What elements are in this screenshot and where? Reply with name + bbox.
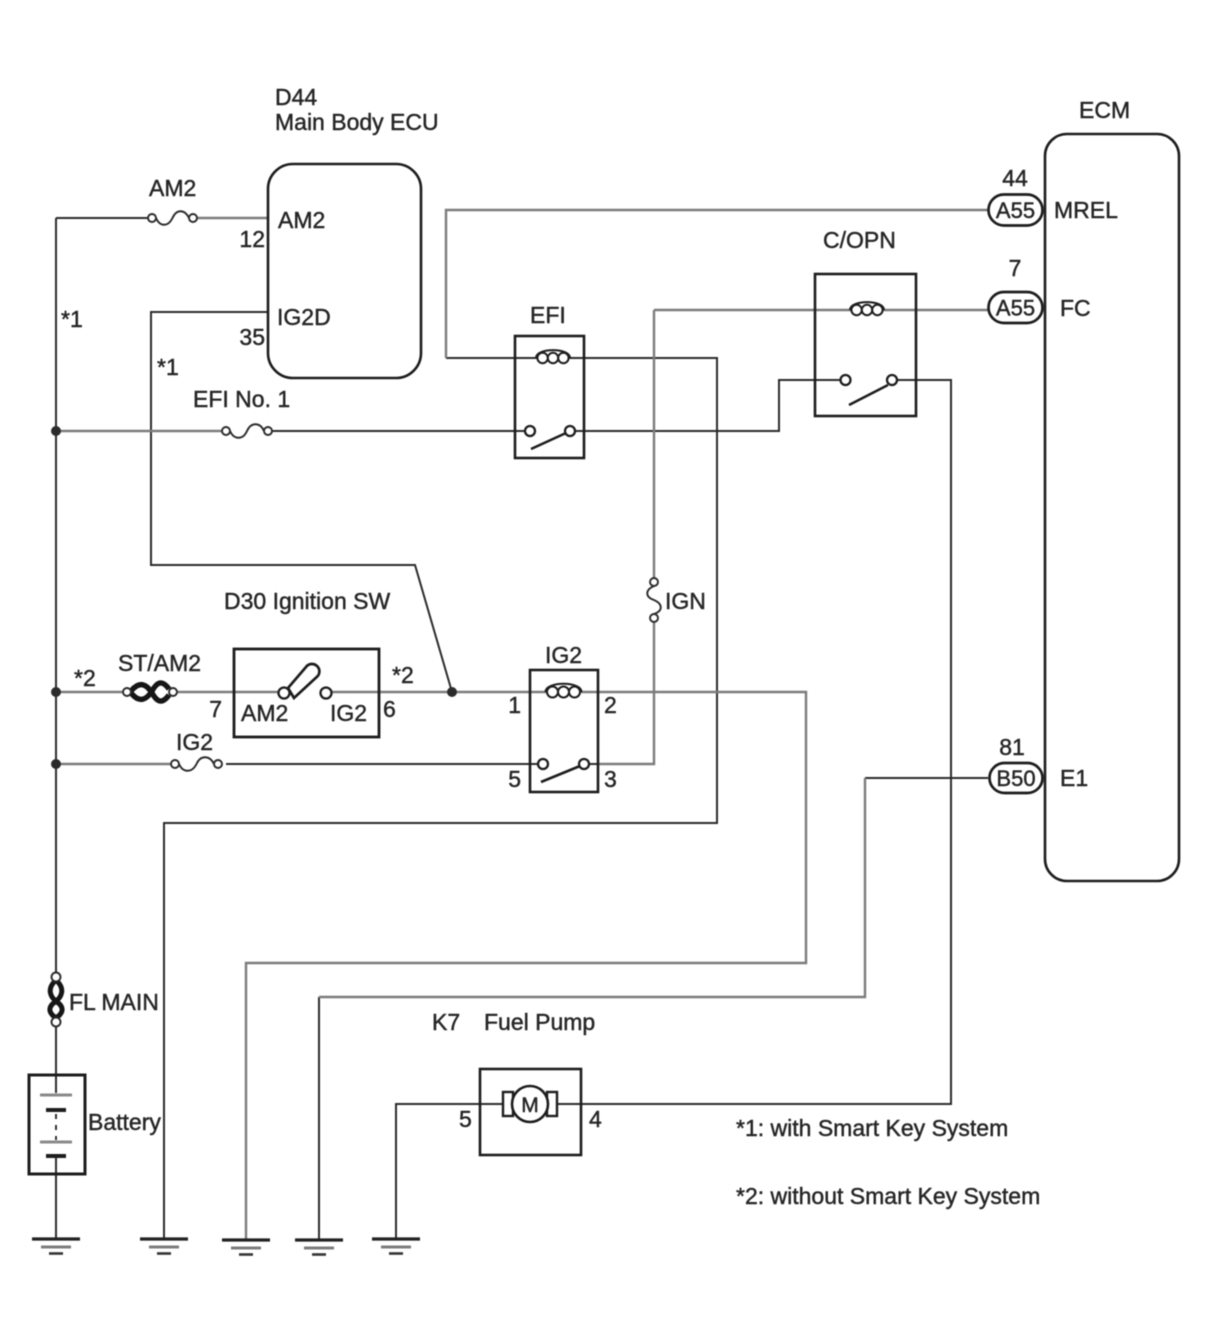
svg-text:M: M	[521, 1094, 539, 1117]
svg-text:3: 3	[604, 766, 617, 792]
wire ST/AM2 link to ignition switch	[177, 691, 279, 693]
wire ST/AM2 feed	[56, 691, 123, 693]
svg-text:1: 1	[508, 692, 521, 718]
wire IG2 fuse to IG2 relay switch	[226, 763, 538, 765]
wire E1 ground leg	[318, 997, 320, 1239]
svg-text:*1: with Smart Key System: *1: with Smart Key System	[736, 1115, 1008, 1141]
svg-text:K7: K7	[432, 1009, 460, 1035]
wire IG2D smart-key path	[151, 312, 452, 692]
svg-text:B50: B50	[996, 766, 1035, 791]
connector B50 E1	[990, 763, 1043, 793]
svg-text:6: 6	[383, 696, 396, 722]
svg-text:IG2: IG2	[545, 642, 582, 668]
wire MREL from ECM	[446, 210, 988, 358]
wire C/OPN switch out to fuel pump pin 4	[556, 380, 951, 1104]
svg-text:4: 4	[589, 1106, 602, 1132]
svg-text:IG2: IG2	[330, 700, 367, 726]
junction node battery/ST-AM2	[51, 687, 61, 697]
svg-text:35: 35	[239, 324, 265, 350]
ground G5	[372, 1239, 420, 1254]
relay C/OPN box	[815, 274, 916, 416]
svg-text:D44: D44	[275, 84, 317, 110]
fusible link ST/AM2	[131, 683, 169, 701]
ECM box	[1045, 134, 1179, 881]
connector A55 FC	[989, 292, 1043, 323]
svg-text:C/OPN: C/OPN	[823, 227, 896, 253]
fuse IGN	[647, 578, 661, 622]
svg-text:FL MAIN: FL MAIN	[69, 989, 159, 1015]
fuel pump K7 box	[480, 1069, 581, 1155]
svg-text:FC: FC	[1060, 295, 1091, 321]
svg-text:2: 2	[604, 692, 617, 718]
WIRES-GRAY	[56, 210, 988, 1239]
battery plates	[40, 1095, 72, 1156]
relay EFI switch	[525, 426, 575, 449]
wire IG2 relay switch pin3 inside	[589, 763, 598, 765]
svg-text:IGN: IGN	[665, 588, 706, 614]
svg-text:7: 7	[1009, 255, 1022, 281]
ground G2	[140, 1239, 188, 1254]
ground G4	[295, 1240, 343, 1255]
svg-text:A55: A55	[996, 198, 1035, 223]
wire AM2 fuse to ECU pin 12	[197, 217, 268, 219]
junction node battery/IG2 fuse	[51, 759, 61, 769]
svg-text:ECM: ECM	[1079, 97, 1130, 123]
wire battery bus vertical upper	[55, 218, 57, 973]
wire IGN fuse vertical	[653, 310, 655, 578]
junction node ignition out	[447, 687, 457, 697]
ground G3	[222, 1240, 270, 1255]
svg-text:*1: *1	[61, 306, 83, 332]
ECU D44 box	[268, 164, 421, 378]
svg-text:ST/AM2: ST/AM2	[118, 650, 201, 676]
ignition switch D30 box	[234, 649, 379, 737]
svg-text:81: 81	[999, 734, 1025, 760]
battery box	[29, 1075, 85, 1174]
wire ignition switch IG2 out to IG2 relay coil and ground G3	[246, 692, 806, 1239]
junction node battery/EFI	[51, 426, 61, 436]
wire E1 routing down and left	[319, 778, 865, 997]
svg-text:*2: *2	[392, 662, 414, 688]
svg-text:AM2: AM2	[149, 175, 196, 201]
wire battery negative to ground	[55, 1158, 57, 1239]
svg-text:12: 12	[239, 226, 265, 252]
fusible link FL MAIN	[50, 981, 62, 1018]
ignition switch contacts	[279, 688, 332, 699]
relay EFI coil	[536, 350, 570, 363]
wire IGN fuse to IG2 relay pin3	[598, 622, 654, 764]
svg-text:AM2: AM2	[278, 207, 325, 233]
svg-text:5: 5	[459, 1106, 472, 1132]
wire C/OPN coil row to FC	[654, 309, 988, 311]
wire B50 E1 lead	[865, 777, 988, 779]
svg-text:IG2D: IG2D	[277, 304, 331, 330]
fuse AM2	[148, 211, 197, 225]
wire MREL corner to EFI coil through to ground G2	[164, 358, 717, 1239]
svg-text:*2: *2	[74, 665, 96, 691]
svg-text:EFI No. 1: EFI No. 1	[193, 386, 290, 412]
svg-text:A55: A55	[996, 296, 1035, 321]
connector A55 MREL	[989, 195, 1043, 226]
wire EFI relay switch out to C/OPN switch	[575, 380, 841, 431]
relay C/OPN coil	[850, 302, 884, 315]
wire AM2 fuse feed	[56, 217, 148, 219]
wire EFI No.1 fuse to EFI relay	[272, 430, 525, 432]
svg-text:D30 Ignition SW: D30 Ignition SW	[224, 588, 390, 614]
relay IG2 switch	[538, 759, 589, 782]
svg-text:Main Body ECU: Main Body ECU	[275, 109, 439, 135]
fuel pump motor	[503, 1086, 557, 1122]
wire EFI No.1 feed	[56, 430, 222, 432]
svg-text:IG2: IG2	[176, 729, 213, 755]
fuse EFI No.1	[222, 424, 272, 438]
wire IG2 fuse feed	[56, 763, 171, 765]
svg-text:AM2: AM2	[241, 700, 288, 726]
wire battery bus vertical lower (FL MAIN to battery)	[55, 1026, 57, 1093]
relay IG2 box	[530, 670, 598, 792]
svg-text:EFI: EFI	[530, 302, 566, 328]
svg-text:*1: *1	[157, 354, 179, 380]
relay IG2 coil	[546, 684, 582, 698]
ground G1	[32, 1239, 80, 1254]
ignition switch lever	[288, 664, 319, 698]
svg-text:5: 5	[508, 766, 521, 792]
fuse IG2	[171, 757, 222, 771]
svg-text:Battery: Battery	[88, 1109, 161, 1135]
svg-text:Fuel Pump: Fuel Pump	[484, 1009, 595, 1035]
svg-text:MREL: MREL	[1054, 197, 1118, 223]
svg-text:7: 7	[209, 696, 222, 722]
relay EFI box	[515, 336, 584, 458]
svg-text:44: 44	[1002, 165, 1028, 191]
relay C/OPN switch	[841, 375, 898, 405]
svg-text:*2: without Smart Key System: *2: without Smart Key System	[736, 1183, 1040, 1209]
wire fuel pump pin5 to ground G5	[396, 1104, 504, 1239]
svg-text:E1: E1	[1060, 765, 1088, 791]
WIRES-BLACK	[56, 218, 988, 1239]
